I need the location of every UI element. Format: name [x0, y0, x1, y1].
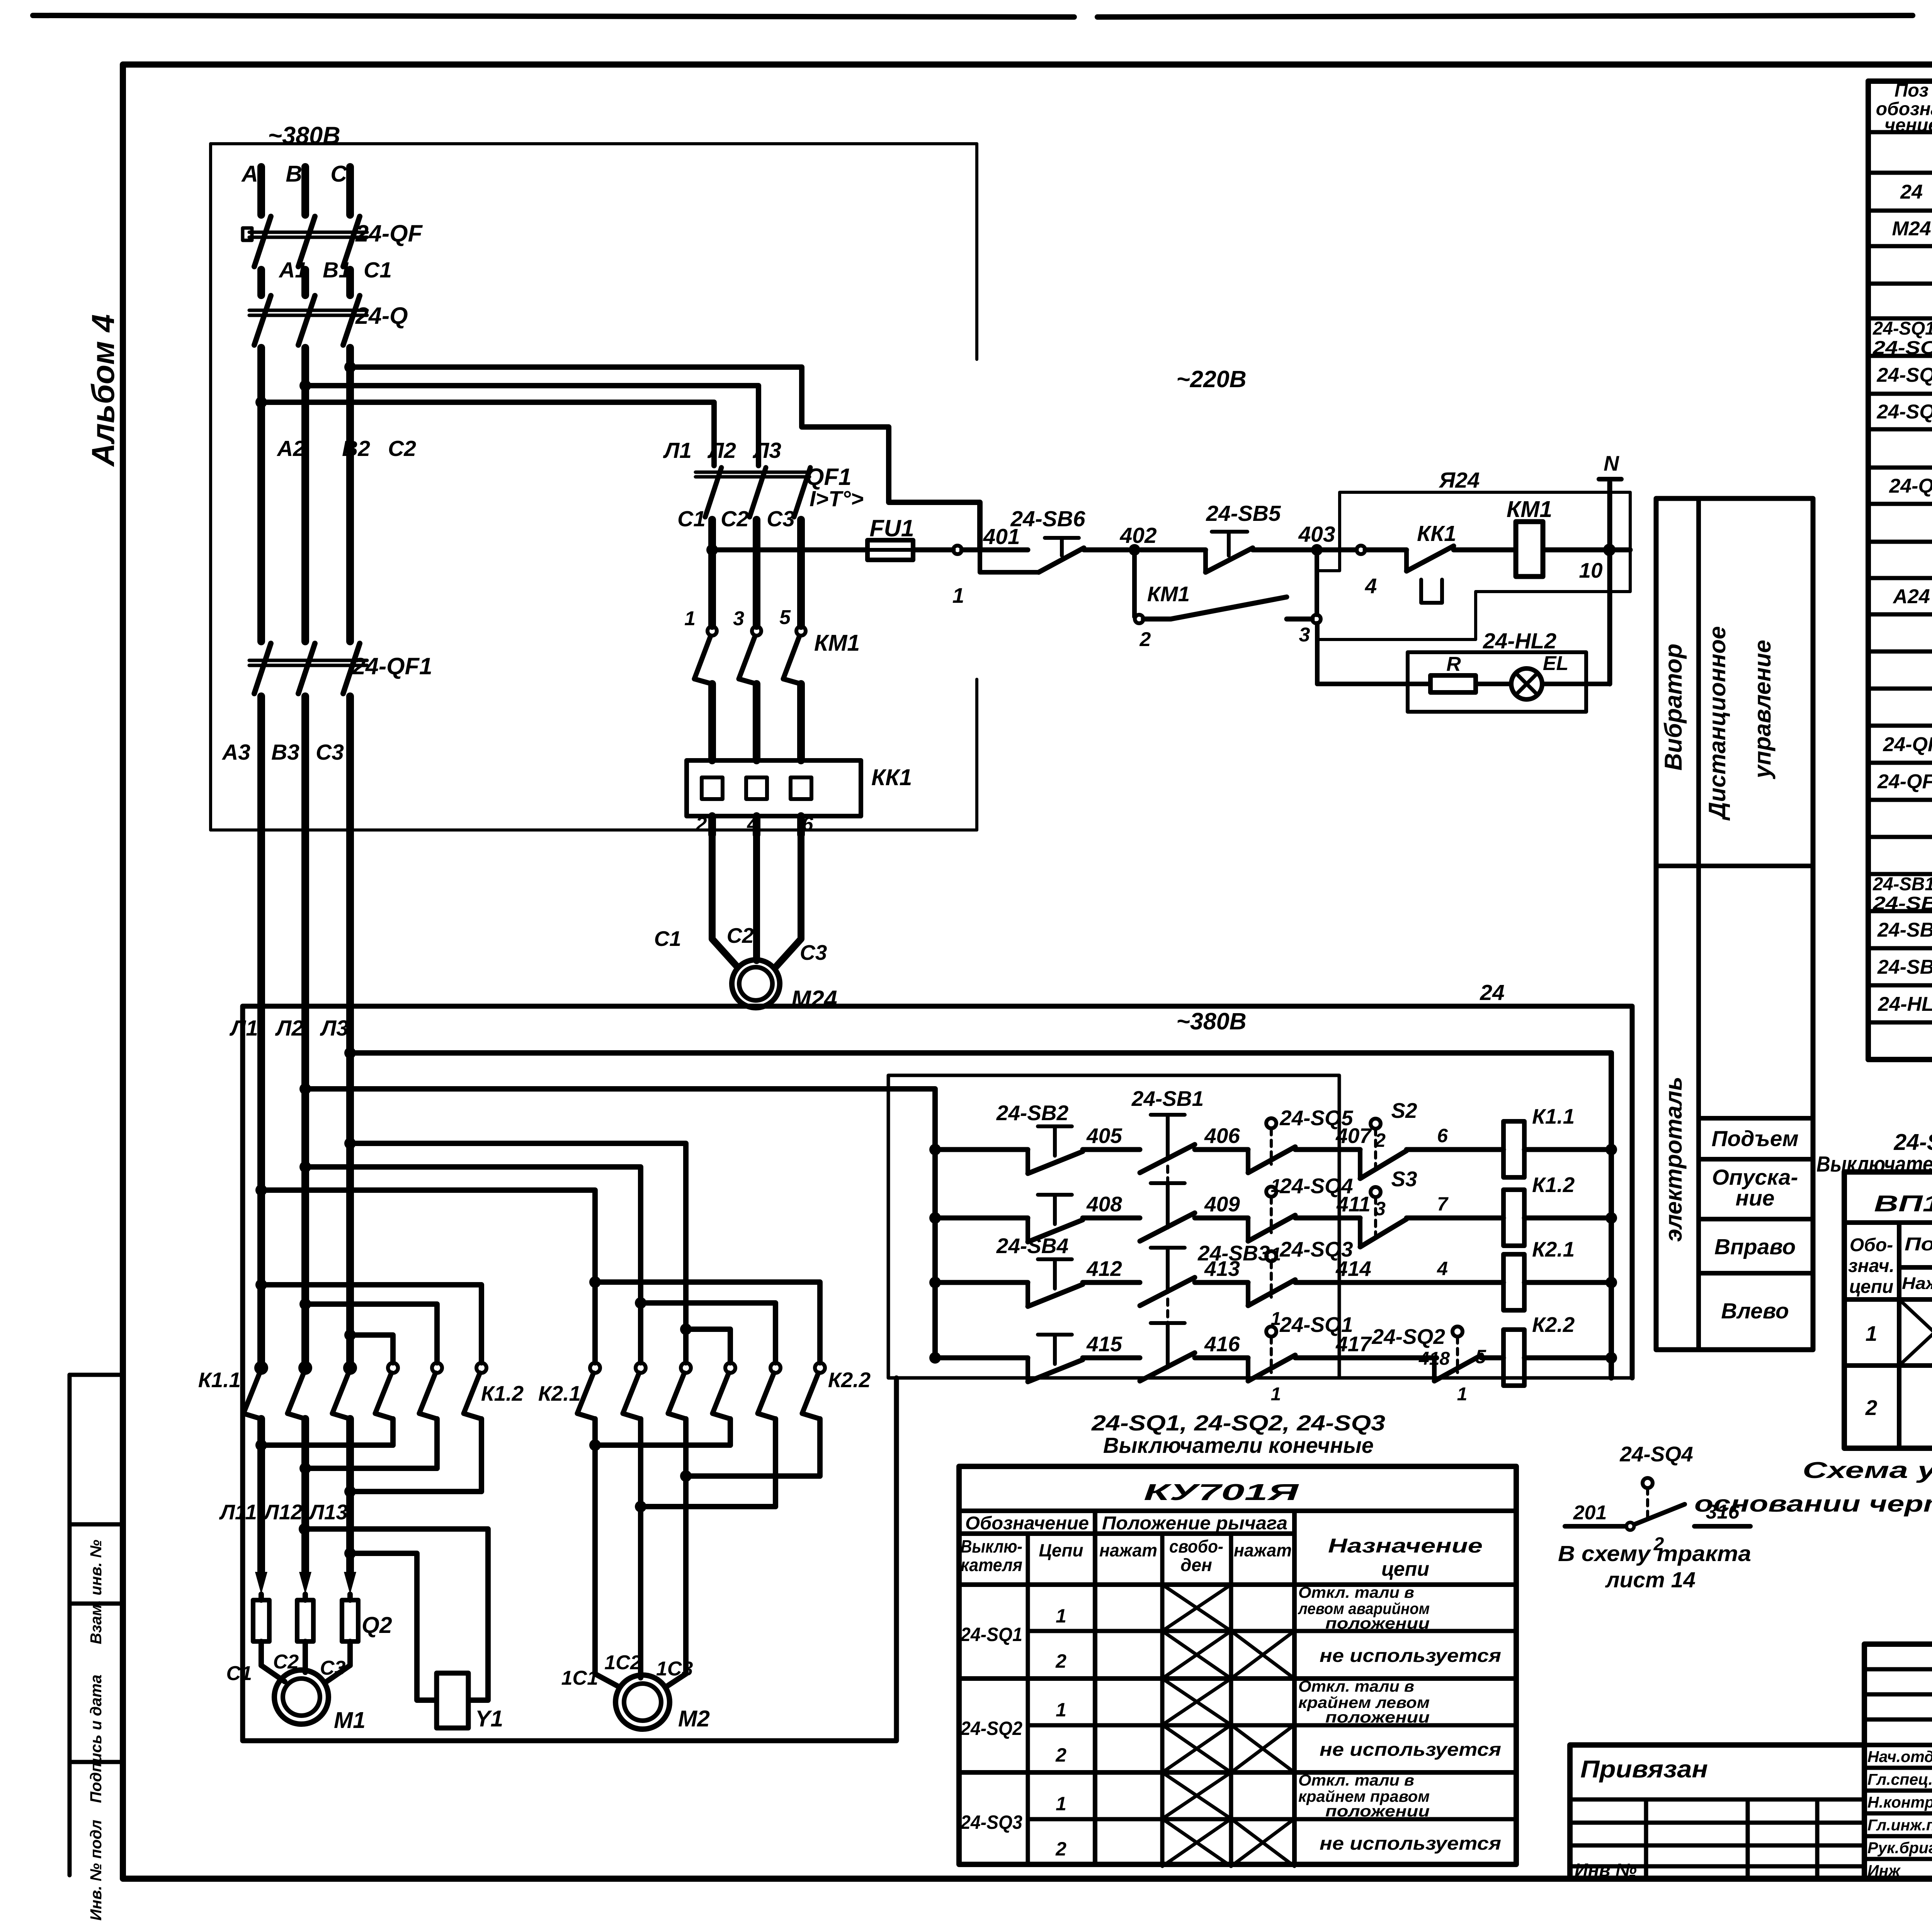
svg-text:24-SB5: 24-SB5	[1206, 501, 1281, 526]
svg-text:С2: С2	[721, 507, 749, 531]
svg-text:24-SB5: 24-SB5	[1877, 919, 1932, 941]
svg-text:С3: С3	[800, 940, 827, 964]
X mark SQ2 row2 col5	[1231, 1725, 1294, 1772]
svg-text:Я24: Я24	[1439, 468, 1480, 493]
wire L3 to K1.2 pole1	[350, 1335, 393, 1363]
svg-text:~220В: ~220В	[1176, 366, 1246, 392]
svg-text:Влево: Влево	[1721, 1299, 1789, 1323]
node fuse row tap	[706, 544, 718, 556]
wire phase segment A3	[346, 270, 354, 295]
svg-text:24-SQ1...: 24-SQ1...	[1872, 318, 1932, 339]
wire L2 to K2.1 pole2	[305, 1167, 641, 1363]
svg-text:Гл.спец.: Гл.спец.	[1867, 1770, 1932, 1788]
svg-text:1: 1	[1056, 1699, 1066, 1721]
X mark SQ4 row1 нажат	[1899, 1299, 1932, 1366]
contactor pole K1.1-2	[300, 1363, 310, 1373]
svg-text:лист 14: лист 14	[1605, 1568, 1696, 1592]
motor M1	[261, 1665, 285, 1682]
svg-text:А: А	[241, 161, 258, 187]
motor M1 outer	[274, 1670, 328, 1724]
jumpers feeding K1.2 poles	[255, 1279, 267, 1291]
svg-text:С: С	[330, 161, 347, 187]
svg-text:С3: С3	[320, 1657, 346, 1679]
svg-text:405: 405	[1086, 1124, 1122, 1148]
svg-text:Откл. тали в: Откл. тали в	[1298, 1771, 1414, 1789]
svg-text:КК1: КК1	[1417, 521, 1456, 546]
resistor R	[1430, 675, 1476, 692]
svg-text:24-HL2: 24-HL2	[1878, 993, 1932, 1015]
link SB1 rungs 1-2	[1166, 1166, 1169, 1209]
station A24 boundary	[1317, 492, 1630, 639]
motor M24 inner	[739, 967, 772, 1000]
svg-text:403: 403	[1298, 522, 1335, 547]
svg-text:К2.2: К2.2	[1532, 1313, 1575, 1337]
svg-text:А2: А2	[276, 436, 305, 461]
limit switch 24-SQ1 contact	[1266, 1327, 1276, 1337]
svg-text:управление: управление	[1749, 640, 1776, 779]
svg-text:свобо-: свобо-	[1169, 1536, 1223, 1556]
neutral N lead	[1607, 482, 1612, 684]
svg-text:2: 2	[1055, 1744, 1066, 1766]
function column boxes	[1656, 498, 1813, 1350]
limit switch 24-SQ3 contact	[1266, 1251, 1276, 1261]
selector S3 contact	[1358, 1218, 1362, 1247]
svg-text:Л12: Л12	[263, 1500, 303, 1524]
wire B2 tap to QF1 pole 2	[305, 386, 759, 466]
svg-text:Привязан: Привязан	[1580, 1756, 1708, 1783]
svg-text:Инв. № подл: Инв. № подл	[87, 1820, 105, 1920]
svg-text:Н.контр: Н.контр	[1867, 1793, 1932, 1811]
svg-text:Y1: Y1	[475, 1706, 503, 1731]
terminal 4	[1357, 546, 1365, 554]
svg-text:1: 1	[1457, 1384, 1468, 1405]
contactor pole K1.2-3	[476, 1363, 486, 1373]
thermal contact KK1 (NC)	[1404, 550, 1409, 571]
limit switch 24-SQ5 contact	[1266, 1118, 1276, 1128]
circuit breaker 24-QF	[254, 216, 271, 267]
right ladder bus	[1609, 1053, 1614, 1378]
wire 403	[1253, 548, 1311, 553]
motor M2 outer	[616, 1675, 670, 1729]
svg-text:положении: положении	[1325, 1802, 1430, 1820]
wire L13 to Y1	[350, 1553, 436, 1700]
svg-text:цепи: цепи	[1381, 1558, 1429, 1580]
contactor pole K1.2-2	[432, 1363, 442, 1373]
svg-text:Подпись и дата: Подпись и дата	[87, 1675, 105, 1803]
title block	[1570, 1745, 1864, 1879]
svg-text:С1: С1	[364, 258, 392, 282]
svg-text:кателя: кателя	[961, 1555, 1022, 1575]
svg-text:4: 4	[1365, 574, 1377, 598]
svg-text:24-SQ5: 24-SQ5	[1876, 364, 1932, 386]
svg-text:КУ701Я: КУ701Я	[1144, 1480, 1300, 1505]
X mark SQ3 row2 col4	[1162, 1819, 1231, 1866]
svg-text:С3: С3	[767, 507, 795, 531]
svg-text:1С2: 1С2	[604, 1651, 641, 1674]
svg-text:Нажат: Нажат	[1902, 1274, 1932, 1293]
motor M2 inner	[624, 1684, 661, 1721]
wire L1 to K1.2 pole3	[261, 1285, 481, 1363]
node C2 tap	[344, 361, 356, 373]
svg-text:Обозначение: Обозначение	[965, 1513, 1089, 1534]
wire L2 to K1.2 pole2	[305, 1304, 437, 1363]
svg-text:Л2: Л2	[275, 1016, 304, 1041]
svg-text:24-QF1: 24-QF1	[1877, 770, 1932, 793]
wire phase 3 top segment	[346, 167, 354, 215]
ladder supply from L2	[299, 1083, 311, 1095]
svg-text:В: В	[286, 161, 302, 187]
wire 402 to SB5	[1141, 548, 1206, 553]
svg-text:5: 5	[779, 606, 791, 629]
svg-text:415: 415	[1086, 1332, 1122, 1356]
cross jumpers K2.1 to K2.2	[589, 1276, 601, 1288]
relay coil K2.1	[1503, 1254, 1524, 1310]
contact outputs / parallel joins	[257, 1419, 265, 1573]
svg-text:3: 3	[733, 607, 744, 630]
wire phase segment A1	[257, 270, 265, 295]
motor M24	[712, 835, 737, 967]
svg-text:С3: С3	[316, 740, 344, 765]
svg-text:К2.2: К2.2	[828, 1368, 871, 1392]
svg-text:2: 2	[1055, 1650, 1066, 1672]
svg-text:К1.1: К1.1	[198, 1368, 241, 1392]
plug arrows	[255, 1572, 267, 1594]
contactor pole K1.1-1	[256, 1363, 266, 1373]
svg-text:417: 417	[1335, 1332, 1372, 1356]
svg-text:407: 407	[1335, 1124, 1372, 1148]
ladder rung 1 Подъем	[929, 1144, 941, 1155]
svg-text:Положение: Положение	[1905, 1234, 1932, 1255]
svg-text:Цепи: Цепи	[1039, 1540, 1083, 1560]
svg-text:положении: положении	[1325, 1708, 1430, 1726]
svg-text:В1: В1	[323, 258, 351, 282]
terminal 1	[953, 546, 962, 554]
svg-text:24-QF1: 24-QF1	[352, 653, 432, 679]
svg-text:КК1: КК1	[871, 765, 912, 790]
contactor pole K2.1-3	[681, 1363, 691, 1373]
lamp EL	[1511, 668, 1542, 699]
svg-text:Л1: Л1	[229, 1016, 258, 1041]
svg-text:М2: М2	[678, 1706, 710, 1731]
svg-text:1С1: 1С1	[561, 1667, 598, 1689]
contactor pole K2.2-2	[770, 1363, 781, 1373]
fuse FU1	[867, 540, 913, 560]
svg-text:3: 3	[1299, 624, 1310, 646]
left ladder bus	[305, 1089, 935, 1358]
svg-text:КМ1: КМ1	[1147, 582, 1190, 606]
wire L3 to K2.1 pole3	[350, 1143, 686, 1363]
contactor pole K1.2-1	[388, 1363, 398, 1373]
svg-text:1: 1	[1056, 1793, 1066, 1815]
svg-text:Л13: Л13	[308, 1500, 348, 1524]
svg-text:Поз: Поз	[1895, 80, 1929, 101]
svg-text:Л2: Л2	[707, 438, 736, 463]
svg-text:7: 7	[1437, 1193, 1449, 1215]
svg-text:Л3: Л3	[320, 1016, 349, 1041]
svg-text:ВП1БГ23А231-55У2.3: ВП1БГ23А231-55У2.3	[1874, 1191, 1932, 1216]
svg-text:409: 409	[1204, 1192, 1240, 1216]
svg-text:24-SQ2: 24-SQ2	[1371, 1325, 1445, 1349]
circuit breaker 24-QF1 (lower, feeds vibrator motors)	[254, 643, 271, 694]
svg-text:413: 413	[1204, 1257, 1240, 1281]
wire A2 tap to QF1 pole 1	[261, 402, 714, 466]
wire QF1 pole down	[797, 520, 805, 626]
wire to KM1 coil	[1454, 548, 1516, 553]
svg-text:Обо-: Обо-	[1850, 1235, 1893, 1255]
wire to K2.2 pole1	[686, 1329, 730, 1363]
wire to K2.2 pole2	[641, 1303, 776, 1363]
brake solenoid Y1 feed	[299, 1523, 310, 1535]
svg-text:С2: С2	[388, 436, 416, 461]
jumpers feeding K2.1 poles	[344, 1138, 356, 1149]
svg-text:24-SB4: 24-SB4	[1872, 893, 1932, 914]
node 403	[1311, 544, 1323, 556]
svg-text:24-SQ3: 24-SQ3	[960, 1811, 1022, 1833]
svg-text:10: 10	[1579, 558, 1603, 582]
svg-text:N: N	[1604, 451, 1619, 475]
HL2 box	[1408, 652, 1586, 712]
svg-text:основании чертежа ТЭ551ЭЗ: основании чертежа ТЭ551ЭЗ Харьковского з…	[1694, 1491, 1932, 1517]
motor M2	[595, 1674, 619, 1687]
contactor pole K2.1-2	[636, 1363, 646, 1373]
motor M24 outer	[732, 960, 780, 1008]
svg-text:КМ1: КМ1	[814, 630, 860, 656]
svg-text:QF1: QF1	[806, 464, 852, 490]
svg-text:Выклю-: Выклю-	[961, 1536, 1022, 1556]
svg-text:Вправо: Вправо	[1714, 1235, 1796, 1259]
svg-text:К1.2: К1.2	[481, 1381, 524, 1405]
svg-text:24-SB1...: 24-SB1...	[1872, 874, 1932, 895]
svg-text:положении: положении	[1325, 1614, 1430, 1632]
wire phase segment A33 down to box 24	[346, 696, 354, 1368]
svg-text:24-SQ2: 24-SQ2	[960, 1718, 1022, 1739]
svg-text:1: 1	[684, 607, 696, 630]
svg-text:416: 416	[1204, 1332, 1240, 1356]
pushbutton SB NC contact	[1140, 1353, 1195, 1381]
svg-text:С1: С1	[677, 507, 706, 531]
self-hold contact KM1 (bypass)	[1132, 550, 1137, 617]
wire to FU1	[712, 548, 867, 553]
motor M1 inner	[283, 1679, 320, 1716]
contactor pole K2.1-1	[590, 1363, 600, 1373]
X mark SQ2 row2 col4	[1162, 1725, 1231, 1772]
contactor pole K2.2-1	[725, 1363, 735, 1373]
X mark SQ1 row2 col4	[1162, 1631, 1231, 1679]
wire node3 down to lamp	[1315, 623, 1320, 684]
svg-text:К1.2: К1.2	[1532, 1173, 1575, 1197]
wire node3 up to 403	[1315, 554, 1319, 615]
svg-text:24-SQ1, 24-SQ2, 24-SQ3: 24-SQ1, 24-SQ2, 24-SQ3	[1091, 1411, 1386, 1435]
wire coil to terminal 10	[1543, 548, 1605, 553]
solenoid Y1	[437, 1673, 468, 1728]
svg-text:А24: А24	[1892, 585, 1930, 608]
svg-text:418: 418	[1418, 1349, 1450, 1369]
svg-text:FU1: FU1	[869, 515, 914, 541]
svg-text:24-SQ4: 24-SQ4	[1619, 1442, 1693, 1466]
wire QF1 pole down	[708, 520, 716, 626]
svg-text:В схему тракта: В схему тракта	[1558, 1541, 1751, 1566]
svg-text:С2: С2	[727, 923, 754, 947]
pushbutton SB NO contact	[1026, 1218, 1030, 1242]
svg-text:414: 414	[1335, 1257, 1371, 1281]
pushbutton SB NO contact	[1026, 1358, 1030, 1382]
left margin stamp strip	[68, 1375, 72, 1875]
svg-text:S3: S3	[1391, 1167, 1417, 1191]
pushbutton 24-SB1 NC contact	[1140, 1145, 1195, 1173]
svg-text:24-HL2: 24-HL2	[1483, 629, 1556, 653]
svg-text:знач.: знач.	[1848, 1256, 1895, 1276]
svg-text:24-SB2: 24-SB2	[996, 1101, 1069, 1125]
wire to KK1 contact	[1365, 548, 1406, 553]
svg-text:Нач.отд: Нач.отд	[1867, 1748, 1932, 1765]
wire L1 to K2.1 pole1	[261, 1190, 595, 1363]
link SB3 rungs 3-4	[1166, 1299, 1169, 1342]
wire FU1 to terminal 1	[913, 548, 953, 553]
svg-text:К2.1: К2.1	[538, 1381, 581, 1405]
limit switch 24-SQ4 contact	[1266, 1187, 1276, 1197]
svg-text:~380В: ~380В	[1176, 1008, 1246, 1034]
wire phase segment A23 down to box 24	[301, 696, 309, 1368]
wire phase segment A1 to QF1	[257, 348, 265, 641]
svg-text:24-SQ4: 24-SQ4	[1876, 401, 1932, 423]
svg-text:Л11: Л11	[219, 1500, 257, 1524]
svg-text:1С3: 1С3	[656, 1658, 693, 1680]
sheet top ragged edge line	[33, 15, 1074, 17]
node 402	[1129, 544, 1140, 556]
svg-text:R: R	[1446, 653, 1461, 675]
svg-text:S2: S2	[1391, 1099, 1417, 1122]
start button 24-SB5	[1203, 550, 1208, 572]
svg-text:электроталь: электроталь	[1660, 1077, 1687, 1242]
wire phase segment A13 down to box 24	[257, 696, 265, 1368]
svg-text:Л3: Л3	[752, 438, 781, 463]
svg-text:Откл. тали в: Откл. тали в	[1298, 1677, 1414, 1695]
svg-text:24-QF: 24-QF	[1883, 733, 1932, 756]
contactor coil KM1	[1516, 522, 1543, 577]
limit switch 24-SQ2 contact	[1452, 1327, 1463, 1337]
wire C2 tap to control fuse row	[350, 367, 980, 550]
svg-text:не используется: не используется	[1320, 1833, 1501, 1854]
equipment boundary box (upper section)	[211, 142, 977, 145]
wire phase 2 top segment	[301, 167, 309, 215]
X mark SQ3 row2 col5	[1231, 1819, 1294, 1866]
svg-text:нажат: нажат	[1099, 1540, 1157, 1560]
svg-text:К1.1: К1.1	[1532, 1104, 1575, 1128]
vibrator machine boundary box 24	[243, 1006, 1632, 1741]
svg-text:1: 1	[952, 583, 964, 607]
relay coil K2.2	[1503, 1330, 1524, 1386]
ladder rung 3 Вправо	[929, 1277, 941, 1288]
svg-text:В2: В2	[342, 436, 370, 461]
wire 401	[962, 548, 1028, 553]
wire phase segment A3 to QF1	[346, 348, 354, 641]
terminal 10	[1605, 546, 1614, 554]
svg-text:1: 1	[1056, 1605, 1066, 1627]
node B2 tap	[299, 380, 311, 391]
wire 402	[1084, 548, 1128, 553]
component list table	[1866, 81, 1871, 1060]
svg-text:24-QF: 24-QF	[355, 220, 423, 247]
svg-text:нажат: нажат	[1234, 1540, 1292, 1560]
svg-text:Вибратор: Вибратор	[1660, 644, 1687, 771]
svg-text:ние: ние	[1736, 1186, 1775, 1211]
svg-text:С1: С1	[226, 1662, 252, 1685]
svg-text:411: 411	[1336, 1192, 1371, 1216]
svg-text:не используется: не используется	[1320, 1646, 1501, 1666]
svg-text:Назначение: Назначение	[1328, 1535, 1483, 1557]
svg-text:КМ1: КМ1	[1507, 497, 1552, 522]
svg-text:I>T°>: I>T°>	[810, 486, 864, 511]
ladder rung 4 Влево	[929, 1352, 941, 1364]
wire phase segment A2 to QF1	[301, 348, 309, 641]
pushbutton 24-SB2 NO contact	[1026, 1150, 1030, 1173]
svg-text:4: 4	[1437, 1258, 1448, 1279]
relay coil K1.1	[1503, 1121, 1524, 1177]
X mark SQ1 row1	[1162, 1585, 1231, 1631]
svg-text:24-SQ3: 24-SQ3	[1872, 338, 1932, 358]
pushbutton SB NC contact	[1140, 1213, 1195, 1241]
pushbutton 24-SB4 NO contact	[1026, 1282, 1030, 1306]
KK1 box	[687, 760, 861, 816]
disconnect switch 24-Q	[254, 296, 271, 345]
svg-text:24-Q: 24-Q	[1889, 475, 1932, 497]
svg-text:Откл. тали в: Откл. тали в	[1298, 1583, 1414, 1601]
svg-text:Взам. инв. №: Взам. инв. №	[87, 1540, 105, 1645]
svg-text:EL: EL	[1543, 652, 1568, 675]
terminal 3	[1312, 615, 1321, 623]
wire QF1 pole down	[753, 520, 760, 626]
svg-text:24-SB6: 24-SB6	[1877, 956, 1932, 978]
svg-text:М24: М24	[1892, 218, 1931, 240]
svg-text:24-SB6: 24-SB6	[1010, 507, 1085, 531]
svg-text:2: 2	[1139, 628, 1151, 651]
svg-text:24-SQ1: 24-SQ1	[960, 1624, 1022, 1645]
X mark SQ3 row1	[1162, 1772, 1231, 1819]
svg-text:Альбом 4: Альбом 4	[85, 314, 121, 467]
svg-text:24-SQ4: 24-SQ4	[1893, 1129, 1932, 1155]
pushbutton 24-SB3 NC contact	[1140, 1277, 1195, 1306]
svg-text:чение: чение	[1884, 115, 1932, 136]
svg-text:В3: В3	[271, 740, 299, 765]
svg-text:А1: А1	[278, 258, 307, 282]
svg-text:ден: ден	[1180, 1555, 1212, 1575]
ladder rung 2 Опускание	[929, 1212, 941, 1224]
svg-text:2: 2	[696, 813, 707, 835]
svg-text:не используется: не используется	[1320, 1740, 1501, 1760]
node A2 tap	[255, 396, 267, 408]
svg-text:Дистанционное: Дистанционное	[1704, 626, 1730, 821]
ladder supply from L3	[344, 1047, 356, 1059]
svg-text:цепи: цепи	[1849, 1277, 1894, 1297]
wire 316	[1694, 1524, 1750, 1529]
wire phase 1 top segment	[257, 167, 265, 215]
svg-text:Q2: Q2	[362, 1612, 392, 1638]
svg-text:А3: А3	[221, 740, 250, 765]
svg-text:408: 408	[1086, 1192, 1122, 1216]
svg-text:406: 406	[1204, 1124, 1240, 1148]
svg-text:2: 2	[1865, 1396, 1878, 1420]
svg-text:М1: М1	[334, 1708, 366, 1733]
wire 201	[1565, 1524, 1626, 1529]
svg-text:201: 201	[1573, 1502, 1607, 1524]
svg-text:Положение рычага: Положение рычага	[1102, 1513, 1287, 1534]
svg-text:412: 412	[1086, 1257, 1122, 1281]
svg-text:24-SB4: 24-SB4	[996, 1234, 1068, 1258]
selector S2 contact	[1358, 1150, 1362, 1179]
contactor pole K1.1-3	[345, 1363, 355, 1373]
svg-text:1: 1	[1866, 1321, 1878, 1345]
breaker QF1 of hoist	[705, 468, 721, 517]
